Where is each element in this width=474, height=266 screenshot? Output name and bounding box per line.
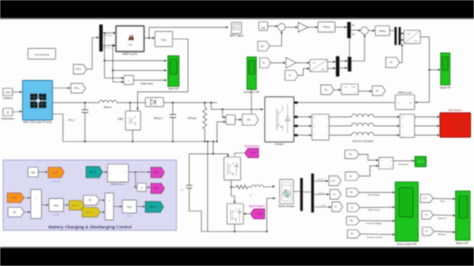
wire irradiance to PV [13, 91, 22, 93]
svg-text:S_N: S_N [154, 188, 159, 190]
battery converter bottom rail [201, 231, 266, 233]
wire grid voltage [359, 191, 394, 193]
wire inverter voltage [359, 220, 394, 222]
wire mosfet1 to node [230, 180, 232, 187]
top letterbox bar [0, 0, 474, 18]
wire bar to sum2 [351, 29, 360, 31]
wire inverter gate row [298, 102, 396, 104]
svg-text:Grid Voltage: Grid Voltage [367, 193, 380, 196]
from tag IB white [83, 195, 99, 205]
svg-text:Battery O/P: Battery O/P [456, 242, 468, 245]
powergui block Continuous [28, 49, 56, 60]
svg-text:IB_ref: IB_ref [87, 211, 93, 214]
svg-text:abc: abc [414, 41, 417, 43]
svg-text:SOC: SOC [423, 198, 428, 200]
svg-text:mppt: mppt [127, 43, 132, 46]
svg-text:IGBT: IGBT [118, 119, 124, 121]
wire NOT to SN goto [146, 186, 150, 188]
MPPT by PV subsystem block [116, 26, 144, 52]
mosfet block lower [227, 204, 243, 224]
svg-text:wt: wt [289, 74, 292, 77]
demux bar pair [395, 27, 397, 45]
svg-text:Dim_B: Dim_B [89, 172, 96, 174]
goto tag Dim_B teal 2 [145, 201, 163, 212]
PWM 2-Level block [395, 95, 414, 110]
wire current out [314, 206, 330, 208]
sum block B2 [105, 193, 114, 220]
wire mux to vdc goto [235, 119, 241, 121]
svg-text:S_N: S_N [257, 214, 262, 216]
PI controller B1 [49, 199, 64, 212]
wire battery m out to demux [293, 191, 300, 193]
wire dc link down to converter [212, 141, 214, 143]
wire bus to MPPT input 1 [103, 32, 115, 34]
wire PID2 to demux bars [390, 30, 395, 32]
svg-text:PI(s): PI(s) [54, 205, 59, 208]
wire sum B2 to PI B [114, 206, 122, 208]
from tag vB right [422, 211, 433, 219]
svg-text:3KW, 370V solar PV Array: 3KW, 370V solar PV Array [23, 121, 52, 124]
svg-text:Battery V: Battery V [438, 217, 447, 220]
wire temperature to PV [13, 111, 22, 114]
wire DC minus tap to voltage measure in2 [216, 141, 218, 143]
svg-text:600: 600 [31, 172, 36, 175]
battery control panel area [3, 160, 176, 230]
PID controller 1 [318, 22, 335, 32]
demux bar battery a [300, 178, 303, 211]
wire tap to Solar scope in1 [104, 60, 106, 62]
wire bar b up to row1 bar [349, 38, 351, 57]
from tag V_ref orange 2 [7, 193, 24, 203]
wire dq0abc out to PWM2L and scope [416, 37, 430, 102]
wire branch to Signal scope [429, 69, 439, 71]
svg-text:abc: abc [344, 87, 347, 89]
diode block [146, 98, 164, 107]
wire power to display [393, 160, 414, 162]
wire wt to dq0 block [400, 45, 403, 63]
goto tag SOC [329, 176, 341, 186]
svg-text:PI_B: PI_B [127, 216, 132, 218]
svg-text:wt: wt [390, 61, 393, 64]
svg-text:MPPT by PV: MPPT by PV [123, 52, 138, 56]
from tag Dim_B teal [86, 166, 103, 177]
svg-text:Grid & Inverter O/P: Grid & Inverter O/P [397, 243, 417, 246]
svg-text:S_P: S_P [154, 172, 159, 174]
svg-text:Inverter Voltage: Inverter Voltage [367, 222, 383, 225]
svg-text:V_ref: V_ref [52, 171, 58, 174]
wire PID1 to mux bar [335, 26, 346, 28]
from tag Ig scope [347, 204, 359, 212]
wire vdc to sum1 [270, 32, 282, 46]
wire PI B to DimB goto [137, 206, 145, 208]
wire gain2 to abc-dq0 [296, 62, 309, 64]
svg-text:PI(s): PI(s) [127, 206, 132, 209]
voltage measurement mux [226, 115, 235, 125]
svg-text:SOC: SOC [331, 181, 336, 183]
wire PWM DC to SP goto [128, 171, 149, 173]
wire Ig to power block [359, 166, 378, 176]
wires into sum B2 [99, 199, 104, 201]
wire bus to MPPT input 2 [103, 45, 115, 47]
svg-text:Grid Current: Grid Current [368, 208, 380, 211]
display block Grid Power [415, 156, 426, 166]
PI controller B [122, 200, 136, 213]
wire tap to Solar scope in2 [112, 70, 114, 72]
wire PLL to wt goto [358, 90, 371, 92]
scope Battery O/P [456, 191, 470, 240]
wires into sum B1 [24, 197, 30, 199]
battery storage block [280, 180, 294, 204]
wire iB to battery scope [434, 230, 455, 233]
grid line inductors [329, 116, 352, 118]
panel constant 600 [28, 167, 38, 177]
from tag Vg scope [347, 188, 359, 196]
wire Vg to PLL [334, 89, 340, 91]
wire tap PV power down [104, 32, 106, 34]
gain block K1 [298, 23, 308, 33]
svg-text:Curr (A): Curr (A) [320, 204, 326, 207]
svg-text:PVm: PVm [76, 68, 81, 71]
svg-text:Signal Negative: Signal Negative [249, 205, 266, 208]
svg-text:Inverter Current: Inverter Current [367, 236, 383, 239]
inverter block [265, 97, 294, 142]
wire DC plus to inverter [210, 102, 212, 104]
svg-text:dq0: dq0 [407, 34, 410, 36]
svg-text:PWM 2-Level: PWM 2-Level [398, 93, 412, 95]
wire node down to mosfet2 [231, 187, 234, 203]
svg-text:Boost_C: Boost_C [154, 117, 163, 120]
from tag iB right [423, 227, 434, 235]
dq0 to abc transform block [404, 30, 420, 43]
from tag vdc panel [8, 207, 24, 217]
from tag Iin scope [347, 230, 360, 238]
PWM generator block [155, 32, 173, 47]
abc to dq0 transform block [310, 59, 328, 71]
wire PV negative rail [53, 114, 218, 142]
wire MPPT duty out [144, 37, 154, 39]
mosfet block upper [224, 157, 241, 180]
wire vB to battery scope [433, 214, 454, 217]
product block Solar Power [124, 76, 134, 85]
svg-text:Grid Power: Grid Power [398, 163, 409, 166]
wire battery minus [267, 197, 275, 199]
capacitor PV_C [84, 102, 86, 104]
wire tap PV current down [112, 45, 114, 47]
from tag PVm [74, 65, 87, 75]
inductor Boost_L [99, 100, 117, 102]
constant block 600 [259, 22, 268, 31]
PWM DC-DC converter block [108, 164, 129, 182]
svg-text:PID(s): PID(s) [379, 30, 386, 33]
svg-text:PWM: PWM [161, 39, 167, 42]
wire inverter current [360, 233, 394, 236]
svg-text:abc: abc [313, 63, 316, 65]
wire negative leg to bottom [207, 142, 209, 232]
logical NOT block [137, 183, 146, 191]
svg-text:Solar Power: Solar Power [141, 83, 154, 86]
wire DC tap to voltage measure in1 [222, 108, 224, 110]
wire SOC to battery scope [433, 197, 455, 200]
sum junction 1 [278, 24, 285, 31]
svg-text:Continuous: Continuous [34, 53, 50, 57]
goto tag V_ref orange [48, 167, 64, 178]
goto tag vB [330, 190, 341, 200]
wire converter top rail [189, 154, 228, 156]
wires bars to dq0 block [401, 33, 403, 35]
from tag Ig power [345, 172, 359, 180]
wire sum1 to gain1 [285, 26, 297, 28]
wire voltage out [314, 193, 328, 195]
wire PI B1 to IBref goto [64, 204, 69, 206]
svg-text:SOC: SOC [440, 201, 445, 203]
wire MPPT out up to scope MPPT Signal [149, 27, 227, 38]
svg-text:Battery Storage: Battery Storage [279, 205, 296, 208]
bus selector bar [99, 25, 102, 52]
three phase source side block [400, 114, 415, 137]
from tag wt 2 [386, 57, 400, 67]
IGBT block boost switch [129, 102, 131, 104]
goto tag S_P magenta [151, 167, 165, 178]
svg-text:Signal Positive: Signal Positive [244, 145, 260, 148]
svg-text:PWM DC-DC-C: PWM DC-DC-C [111, 184, 126, 186]
wire sum to PI B1 [42, 204, 49, 206]
from tag Vg PLL [321, 85, 334, 95]
svg-text:Grid Source: Grid Source [448, 109, 462, 112]
svg-text:PID(s): PID(s) [323, 26, 330, 29]
wire DimB to PWM DC block [103, 171, 107, 173]
svg-text:not: not [140, 187, 143, 190]
PLL block [341, 84, 358, 94]
wire 600 to sum [268, 25, 277, 27]
svg-text:Inverter: Inverter [275, 143, 284, 146]
three phase measurement block [312, 114, 329, 140]
svg-text:PV_Pow: PV_Pow [104, 35, 112, 37]
svg-text:Volt (V): Volt (V) [319, 192, 325, 195]
goto tag IB_ref yellow [69, 200, 84, 210]
goto tag iB [332, 202, 343, 212]
wire Ig to gain2 [271, 62, 285, 64]
svg-text:Signal O/P: Signal O/P [440, 88, 452, 90]
svg-text:600: 600 [261, 27, 266, 30]
mux bar row2 b [348, 57, 352, 72]
scope Solar O/P [168, 56, 179, 87]
from tag Vin scope [347, 217, 360, 225]
PV array block 3KW 370V [23, 81, 53, 121]
svg-text:Irradiance: Irradiance [3, 97, 14, 100]
mux bar row1 [347, 22, 351, 38]
sum junction 2 [361, 27, 368, 34]
goto tag PVm [53, 87, 70, 89]
svg-text:Battery I: Battery I [438, 233, 446, 236]
svg-text:b: b [326, 126, 327, 128]
from tag IB_ref yellow 2 [82, 207, 100, 217]
wire branch to NOT [135, 172, 138, 187]
constant block 1000 Irradiance [3, 88, 13, 95]
wire wt1 to abc-dq0 [298, 69, 309, 76]
from tag wt 1 [285, 70, 298, 80]
svg-text:SOC (%): SOC (%) [317, 179, 324, 181]
svg-text:PI_B1: PI_B1 [53, 214, 60, 216]
inductor L1 with resistor [231, 186, 236, 188]
svg-text:wt: wt [376, 90, 379, 93]
gain block K2 [286, 58, 296, 68]
wire SP tag to mosfet gate [235, 153, 245, 156]
svg-text:c: c [326, 135, 327, 137]
scope Grid and Inverter O/P [395, 182, 418, 241]
svg-text:dq0: dq0 [321, 69, 324, 71]
wire bar b to sum2 bottom [351, 35, 364, 61]
wire product to Solar scope in3 [134, 79, 167, 81]
svg-text:Vref O/P: Vref O/P [52, 180, 61, 183]
wire sum2 to PID2 [368, 30, 374, 32]
svg-text:MPPT Signal: MPPT Signal [230, 35, 244, 37]
goto tag vdc [242, 114, 258, 125]
svg-text:Temperature: Temperature [1, 117, 15, 120]
wire PVm to bus selector [87, 38, 99, 70]
grid source block [440, 113, 471, 137]
wire Vg to power block [359, 154, 378, 160]
wire PV positive rail [53, 102, 100, 104]
svg-text:IB_ref: IB_ref [72, 204, 78, 207]
goto tag S_N magenta [151, 183, 165, 193]
scope block MPPT Signal [232, 23, 242, 34]
from tag Ig [260, 58, 271, 68]
from tag SOC right [421, 194, 434, 202]
from tag Vg power [345, 150, 359, 158]
wire bar a to bar b [303, 191, 311, 193]
capacitor Boost_C [172, 102, 174, 104]
scope Signal O/P [441, 53, 450, 85]
svg-text:1000: 1000 [5, 91, 11, 94]
PID controller 2 [375, 26, 389, 36]
capacitor C2 [188, 154, 190, 186]
svg-text:Grid Line Inductance: Grid Line Inductance [352, 140, 374, 143]
wires bar a to bar b [339, 60, 346, 62]
wire vdc tag to Boosted scope [250, 90, 252, 115]
svg-text:Battery Charging & Discharging: Battery Charging & Discharging Control [48, 225, 131, 230]
svg-text:Boost_L: Boost_L [104, 106, 113, 109]
demux bar battery b [311, 174, 314, 213]
power measurement block [379, 157, 393, 168]
svg-text:V_ref: V_ref [11, 197, 17, 200]
bottom letterbox bar [0, 248, 474, 266]
svg-text:Freq: Freq [352, 86, 356, 88]
svg-text:×: × [128, 79, 130, 83]
wires abc-dq0 outputs to bar [328, 61, 335, 63]
svg-text:S_P: S_P [251, 153, 256, 155]
scope Boosted V O/P [247, 57, 256, 89]
sum block B1 [31, 190, 42, 219]
svg-text:PV_C: PV_C [68, 120, 74, 122]
resistor EVLoad [204, 102, 206, 104]
from tag vdc [258, 41, 270, 51]
svg-text:Solar O/P: Solar O/P [168, 88, 179, 91]
svg-text:PVm: PVm [74, 87, 79, 90]
demux bar row2 a [336, 56, 340, 76]
wire SOC out [314, 180, 327, 182]
svg-text:Boosted V O/P: Boosted V O/P [244, 91, 260, 94]
svg-text:EVLoad: EVLoad [188, 118, 197, 120]
svg-text:Dim_B: Dim_B [149, 207, 156, 209]
inverter output stubs [294, 102, 298, 104]
goto tag wt [372, 86, 385, 96]
wire 600 to Vref goto [38, 171, 47, 173]
svg-text:a: a [326, 117, 327, 119]
wire mosfet2 to bottom rail [234, 224, 236, 232]
wire grid current [360, 206, 395, 208]
wire SN tag to mosfet2 [244, 213, 250, 215]
wire PWM to IGBT gate [138, 39, 188, 110]
constant block 25 Temperature [3, 108, 13, 115]
wire gain1 to PID1 [308, 26, 317, 28]
